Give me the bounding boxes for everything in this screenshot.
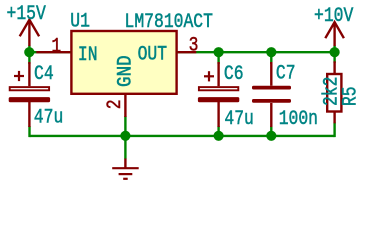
- svg-text:100n: 100n: [279, 108, 318, 130]
- svg-text:OUT: OUT: [138, 44, 168, 66]
- svg-text:U1: U1: [70, 11, 90, 33]
- svg-text:1: 1: [51, 36, 61, 58]
- svg-text:+15V: +15V: [7, 4, 46, 26]
- svg-text:LM7810ACT: LM7810ACT: [125, 12, 213, 34]
- svg-text:C4: C4: [34, 64, 54, 86]
- svg-text:R5: R5: [340, 86, 362, 106]
- svg-text:GND: GND: [113, 55, 136, 87]
- svg-text:2: 2: [104, 99, 126, 109]
- svg-text:C7: C7: [276, 63, 296, 85]
- svg-text:+10V: +10V: [314, 6, 353, 28]
- svg-text:IN: IN: [78, 45, 98, 67]
- svg-text:47u: 47u: [34, 107, 63, 129]
- svg-text:47u: 47u: [224, 108, 253, 130]
- svg-text:3: 3: [189, 35, 199, 57]
- svg-text:C6: C6: [224, 64, 244, 86]
